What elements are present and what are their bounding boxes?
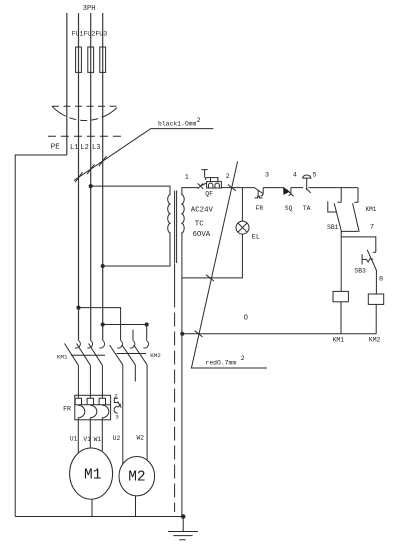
tick on L1 crossing <box>75 172 82 182</box>
wire SB3 down to KM2 coil <box>375 270 377 294</box>
svg-text:EL: EL <box>252 234 260 242</box>
lamp EL circle <box>236 221 249 234</box>
wire FR to SQ <box>263 187 283 189</box>
ground symbol <box>168 517 198 540</box>
wire KM2 feed 1 <box>79 308 121 341</box>
wire transformer primary bottom <box>103 233 170 266</box>
cable entry chord dashed <box>52 105 118 107</box>
svg-text:KM1: KM1 <box>366 206 377 213</box>
FR heater 2 bracket <box>87 398 93 405</box>
wire control bus 0 <box>182 333 376 335</box>
svg-text:3: 3 <box>115 413 119 420</box>
contactor KM2 pole3 blade <box>134 345 147 365</box>
junction dot ground <box>181 514 186 519</box>
svg-text:SB3: SB3 <box>354 268 366 275</box>
junction dot bus <box>180 332 184 336</box>
svg-text:KM2: KM2 <box>369 337 381 344</box>
svg-text:2: 2 <box>241 355 245 362</box>
wire SQ to TA <box>291 187 303 189</box>
svg-text:QF: QF <box>205 191 213 198</box>
annotation leader black1.0mm2 <box>74 129 213 181</box>
svg-text:redO.7mm: redO.7mm <box>206 360 237 367</box>
annotation leader red0.7mm2 <box>191 161 267 368</box>
wire TA right <box>309 187 359 189</box>
svg-text:W1: W1 <box>94 436 102 443</box>
wire secondary top <box>182 188 198 195</box>
cable entry arc <box>52 106 118 120</box>
wire KM2 coil to bus <box>375 304 377 333</box>
transformer core line right <box>176 191 178 264</box>
switch SQ arrow <box>283 187 290 195</box>
pushbutton SB3 cap <box>361 254 363 264</box>
contactor KM1 linkage <box>71 354 105 356</box>
pushbutton SB1 cap <box>327 201 329 212</box>
pushbutton SB3 stem <box>362 259 373 262</box>
wire L3 below KM1 <box>101 365 103 398</box>
FR heater 1 bracket <box>75 398 81 405</box>
wire KM2 pole2 stub bottom <box>134 365 136 382</box>
svg-text:L3: L3 <box>92 144 100 152</box>
wire U2 KM2 to M2 <box>122 365 124 464</box>
contactor KM1 pole3 blade <box>89 344 103 366</box>
switch TA dome <box>302 175 311 178</box>
svg-text:KM1: KM1 <box>57 353 68 360</box>
contactor KM2 pole2 arc <box>130 341 135 348</box>
wire secondary bottom down <box>181 233 183 517</box>
FR heater 1 arc <box>78 405 85 417</box>
svg-text:PE: PE <box>51 143 60 151</box>
wire control line segment QF to FR <box>221 187 253 189</box>
motor M2 circle <box>119 457 155 496</box>
switch SQ right terminal <box>288 188 291 196</box>
svg-text:KM2: KM2 <box>150 352 161 359</box>
wire join SB1 KM1 <box>341 230 358 232</box>
wire PE vertical top <box>66 13 68 155</box>
svg-text:SQ: SQ <box>285 205 293 212</box>
svg-text:FR: FR <box>256 205 264 212</box>
transformer TC secondary winding <box>181 195 184 233</box>
pushbutton SB1 blade <box>334 203 341 232</box>
wire L1 vertical <box>78 13 80 341</box>
svg-text:8: 8 <box>379 276 383 284</box>
wire KM2 pole2 stub top <box>132 330 134 341</box>
wire M1 bottom to PE <box>91 499 93 516</box>
svg-text:M1: M1 <box>84 468 101 484</box>
wire bottom PE horizontal <box>15 516 183 518</box>
panel boundary dash line vertical <box>174 264 176 308</box>
switch TA blade <box>306 188 311 193</box>
tick on L2 crossing <box>87 164 94 174</box>
junction dot L1 KM2 feed <box>76 306 80 310</box>
svg-text:7: 7 <box>370 223 374 231</box>
pushbutton SB1 branch top <box>338 188 342 203</box>
wire transformer primary top <box>91 186 170 194</box>
wire L2 below KM1 <box>89 365 91 398</box>
svg-text:SB1: SB1 <box>327 224 339 231</box>
breaker QF arch 1 <box>209 183 213 188</box>
contact FR release mark <box>255 196 263 198</box>
coil KM1 <box>333 291 348 301</box>
transformer TC primary winding <box>168 195 171 233</box>
contactor KM2 pole1 blade <box>110 345 123 365</box>
switch TA stem <box>306 178 308 190</box>
contact FR thermal NC blade <box>254 187 263 193</box>
contactor KM2 linkage <box>117 353 147 355</box>
svg-text:O: O <box>244 315 248 323</box>
wire KM1 coil to bus <box>340 302 342 334</box>
wire U1 into M1 <box>77 418 79 454</box>
FR heater 3 bracket <box>99 398 105 405</box>
svg-text:FU1FU2FU3: FU1FU2FU3 <box>72 31 108 38</box>
pushbutton SB3 blade <box>367 250 376 271</box>
breaker QF bracket <box>206 178 218 182</box>
contactor KM1 pole1 arc <box>75 341 80 348</box>
fuse FU2 <box>88 47 94 72</box>
wire L3 vertical <box>102 13 104 341</box>
contactor KM2 pole1 arc <box>117 341 122 348</box>
svg-text:L1: L1 <box>70 144 78 152</box>
svg-text:M2: M2 <box>128 470 145 486</box>
junction dot L3 KM2 feed <box>101 322 105 326</box>
lamp EL cross <box>238 223 247 232</box>
wire L2 vertical <box>90 13 92 341</box>
svg-text:U2: U2 <box>113 435 121 442</box>
contact KM1 aux branch top <box>354 188 358 203</box>
svg-text:TA: TA <box>303 205 311 212</box>
contactor KM1 pole2 arc <box>87 341 92 348</box>
contactor KM1 pole1 blade <box>65 344 79 366</box>
lamp EL branch wire top <box>241 188 243 222</box>
contact FR stem <box>257 191 259 197</box>
transformer core line left <box>174 191 176 264</box>
junction dot L2 transformer primary <box>89 184 93 188</box>
wire SB1 down to coil <box>340 231 342 291</box>
svg-text:FR: FR <box>63 405 71 412</box>
tick secondary wire crossing <box>206 275 214 281</box>
lamp EL wire bottom <box>182 234 243 278</box>
contactor KM1 pole3 arc <box>99 341 104 348</box>
svg-text:AC24V: AC24V <box>191 206 214 214</box>
motor M1 circle <box>70 448 113 499</box>
svg-text:6OVA: 6OVA <box>193 231 211 239</box>
svg-text:W2: W2 <box>137 434 145 441</box>
pushbutton SB1 stem <box>328 211 337 213</box>
contactor KM2 pole2 blade <box>122 345 135 365</box>
coil KM2 <box>368 294 383 304</box>
wire PE run to left and down <box>15 155 67 517</box>
junction dot L3 transformer <box>101 264 105 268</box>
breaker QF arch 2 <box>215 183 219 188</box>
svg-text:3: 3 <box>265 172 269 180</box>
wire V1 into M1 <box>89 418 91 448</box>
fuse FU3 <box>100 47 106 72</box>
svg-text:2: 2 <box>197 117 201 124</box>
contactor KM1 pole2 blade <box>77 344 91 366</box>
thermal relay FR box <box>75 395 111 420</box>
panel boundary dashed line <box>48 135 121 137</box>
breaker QF blade <box>200 183 206 186</box>
thermal relay FR divider <box>75 404 111 406</box>
wire M2 bottom to PE <box>135 496 137 517</box>
contactor KM2 pole3 arc <box>143 341 148 348</box>
tick on L3 crossing <box>99 156 106 166</box>
svg-text:TC: TC <box>195 220 204 228</box>
wire L1 below KM1 <box>77 365 79 398</box>
svg-text:2: 2 <box>226 173 230 181</box>
wire KM2 feed 3 <box>103 325 147 341</box>
breaker QF box <box>207 182 222 188</box>
wire node7 line to SB3 branch <box>341 237 376 252</box>
svg-text:3PH: 3PH <box>83 5 96 13</box>
fuse FU1 <box>76 47 82 72</box>
FR aux contact symbol <box>114 398 121 413</box>
junction dot corner KM2 feed 3 <box>145 322 149 326</box>
FR heater 2 arc <box>90 405 97 417</box>
FR heater 3 arc <box>102 405 109 417</box>
svg-text:black1.Omm: black1.Omm <box>158 121 197 128</box>
wire W2 KM2 to M2 <box>146 365 148 461</box>
wire W1 into M1 <box>101 418 103 452</box>
breaker QF contact cross <box>198 183 203 188</box>
svg-text:U1: U1 <box>70 435 78 442</box>
tick node2 crossing <box>228 185 236 191</box>
breaker QF handle T <box>201 170 207 178</box>
svg-text:5: 5 <box>313 172 317 180</box>
tick bus crossing <box>195 331 203 337</box>
svg-text:4: 4 <box>293 172 297 180</box>
switch SQ blade <box>287 189 294 196</box>
svg-text:KM1: KM1 <box>333 337 345 344</box>
svg-text:1: 1 <box>185 174 189 182</box>
svg-text:L2: L2 <box>80 144 88 152</box>
contact FR right terminal <box>261 188 264 196</box>
contact KM1 aux blade <box>353 203 360 232</box>
